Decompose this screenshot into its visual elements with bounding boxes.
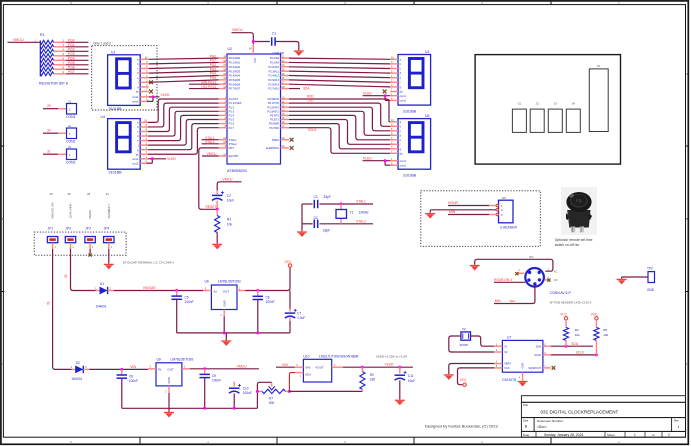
svg-text:XTAL1: XTAL1 <box>356 200 366 204</box>
net label RESET <box>206 205 217 209</box>
svg-text:VIN: VIN <box>305 366 310 370</box>
svg-text:33pF: 33pF <box>323 229 330 233</box>
svg-text:U10: U10 <box>303 354 309 358</box>
wire R7 to U10 ADJ <box>289 373 295 392</box>
svg-text:P1.0/T2: P1.0/T2 <box>229 97 239 101</box>
junction at MCU VCC <box>252 40 255 43</box>
junction XTAL1-crystal <box>340 203 343 206</box>
junction R7 right <box>288 390 291 393</box>
ground (TP2) <box>617 279 627 284</box>
svg-text:3101BB: 3101BB <box>403 110 417 114</box>
junction SDA-R4 <box>565 345 568 348</box>
wire HOUR to header pin1 <box>448 205 496 207</box>
junction R7 left <box>256 390 259 393</box>
svg-text:Date:: Date: <box>523 433 530 437</box>
resistor R4 10k <box>560 313 580 347</box>
svg-text:31: 31 <box>106 192 109 196</box>
svg-text:C11: C11 <box>408 374 414 378</box>
svg-text:Rev: Rev <box>674 418 679 422</box>
capacitor C1 <box>272 31 285 55</box>
svg-text:VLED: VLED <box>363 91 372 95</box>
svg-text:CON1: CON1 <box>66 161 76 165</box>
svg-text:PG3: PG3 <box>68 52 75 56</box>
svg-text:C7: C7 <box>297 311 301 315</box>
svg-text:U6: U6 <box>205 280 209 284</box>
wire XTAL2 row <box>302 223 373 225</box>
svg-text:com2: com2 <box>400 99 407 103</box>
svg-text:VIN: VIN <box>130 365 136 369</box>
junction at C9 <box>203 367 206 370</box>
svg-text:100nF: 100nF <box>266 300 275 304</box>
wire U6 out to VCC <box>245 267 290 290</box>
svg-text:A: A <box>686 72 688 76</box>
svg-text:32768: 32768 <box>459 343 468 347</box>
net label VLED at U6 <box>363 156 372 160</box>
label RESISTOR SIP 8 <box>39 81 68 85</box>
wire SCLK <box>551 354 596 356</box>
svg-text:Designed by Kostas Bourantas,: Designed by Kostas Bourantas, (C) 2023 <box>425 424 498 429</box>
svg-text:TXD: TXD <box>307 99 314 103</box>
svg-text:29: 29 <box>47 104 51 108</box>
svg-text:C6: C6 <box>266 296 270 300</box>
crystal Y2 32768 <box>459 327 470 347</box>
svg-text:P3.5/T1: P3.5/T1 <box>270 118 280 122</box>
wire R3 to ground <box>216 233 218 244</box>
net label VMCU (row B) <box>237 364 248 368</box>
label CONN AV 6-P <box>550 291 572 295</box>
svg-text:RESISTOR SIP 8: RESISTOR SIP 8 <box>39 81 68 85</box>
net label MIN <box>449 210 456 214</box>
designed-by note <box>425 424 498 429</box>
svg-text:U4: U4 <box>101 115 105 119</box>
svg-text:GND: GND <box>521 363 525 369</box>
capacitor C9 100nF <box>199 369 221 409</box>
svg-text:B: B <box>2 217 4 221</box>
stub JP3 no-connect <box>89 249 92 257</box>
7-segment display U3 (3101BB) <box>390 50 431 114</box>
DIN pin2 no-connect <box>515 269 524 275</box>
svg-text:DS1307N: DS1307N <box>502 378 517 382</box>
svg-text:R4: R4 <box>575 328 579 332</box>
ground (top, right of C1) <box>294 51 304 56</box>
7-segment display U1 (3101BB) <box>108 50 149 111</box>
svg-text:330: 330 <box>370 378 376 382</box>
svg-text:1.0uF: 1.0uF <box>297 316 305 320</box>
resistor R3 10k <box>215 209 233 232</box>
no-connect X on ALE/PROG <box>290 146 294 150</box>
svg-text:C4: C4 <box>314 216 318 220</box>
svg-text:TP2: TP2 <box>647 267 653 271</box>
junction VOUT-C11 <box>398 366 401 369</box>
no-connect X on SQW/OUT <box>552 366 556 370</box>
svg-text:VMCU: VMCU <box>13 38 24 42</box>
no-connect X on U1 pin f <box>149 80 153 84</box>
ground (row A) <box>221 341 231 346</box>
svg-text:OUT: OUT <box>167 368 174 372</box>
svg-text:IN: IN <box>214 289 217 293</box>
wire U7 VBAT to ground <box>449 364 495 375</box>
svg-text:SDA: SDA <box>536 344 542 348</box>
net label VIN at U10 <box>276 363 295 367</box>
svg-text:P1.7: P1.7 <box>229 126 235 130</box>
svg-text:C8: C8 <box>129 374 133 378</box>
svg-text:R5: R5 <box>603 328 607 332</box>
svg-text:CONN AV 6-P: CONN AV 6-P <box>550 291 572 295</box>
svg-text:J3: J3 <box>68 145 71 149</box>
capacitor C8 100nF <box>117 369 138 408</box>
junction rail at C10 <box>233 407 236 410</box>
net label XTAL2 at MCU <box>202 140 219 144</box>
wire DIN bottom to MIN <box>494 286 535 304</box>
svg-text:10uF: 10uF <box>227 198 234 202</box>
svg-text:NC: NC <box>554 270 558 274</box>
ground (left of DIN) <box>470 266 480 271</box>
svg-text:P0.6/AD6: P0.6/AD6 <box>229 82 241 86</box>
svg-text:P1.4: P1.4 <box>229 114 235 118</box>
svg-text:P2.6/A14: P2.6/A14 <box>268 82 279 86</box>
ground (in header box) <box>425 214 435 219</box>
svg-text:PSEN: PSEN <box>272 138 279 142</box>
svg-text:SF DICMP TERMINAL CC CT-CA94: SF DICMP TERMINAL CC CT-CA94-3 <box>123 261 174 265</box>
svg-text:U6: U6 <box>425 114 429 118</box>
svg-text:RESET: RESET <box>206 205 217 209</box>
net label TXD <box>307 99 314 103</box>
svg-text:NEG: NEG <box>510 299 516 303</box>
svg-text:3101BB: 3101BB <box>109 171 123 175</box>
svg-text:S4: S4 <box>572 102 576 106</box>
wire U6 com to VLED <box>363 159 391 165</box>
wire D2 to U9 regulator (VIN) <box>89 368 148 370</box>
net label SDA <box>571 342 578 346</box>
svg-text:P3.4/T0: P3.4/T0 <box>270 114 280 118</box>
svg-text:3101BB: 3101BB <box>109 107 123 111</box>
svg-text:PG6: PG6 <box>68 65 75 69</box>
svg-text:SDA: SDA <box>571 342 578 346</box>
svg-text:switch on-off hw: switch on-off hw <box>555 243 580 247</box>
bus wires U4 segments to MCU port1 (staircase) <box>148 99 219 154</box>
ground (below R3) <box>212 244 222 249</box>
wire JP4 to ground <box>108 249 110 264</box>
svg-text:VCC: VCC <box>253 57 257 63</box>
svg-text:31: 31 <box>47 150 51 154</box>
svg-text:1N4001: 1N4001 <box>96 304 107 308</box>
svg-text:VLED +1.25V to +1.5V: VLED +1.25V to +1.5V <box>376 355 408 359</box>
crystal Y1 12MHz <box>336 204 369 224</box>
svg-text:29: 29 <box>50 192 53 196</box>
svg-text:R2: R2 <box>370 373 374 377</box>
wire U3 com to VLED <box>363 94 391 100</box>
wire SDA <box>551 345 593 347</box>
regulator U9 LM78L05 <box>148 363 190 409</box>
svg-text:P1.3: P1.3 <box>229 109 235 113</box>
svg-text:ADJ: ADJ <box>305 373 311 377</box>
svg-text:S3: S3 <box>554 102 558 106</box>
net label VMCU at EA/VPP <box>202 152 219 156</box>
net label SCLK <box>576 351 585 355</box>
capacitor C2 10uF <box>212 190 234 209</box>
wire XTAL ground rail <box>301 204 303 231</box>
svg-text:D1: D1 <box>597 64 601 68</box>
junction SCLK-R5 <box>595 353 598 356</box>
ground rail row A <box>177 332 290 334</box>
ground (U7 GND) <box>518 382 528 387</box>
svg-text:500: 500 <box>269 401 275 405</box>
svg-text:P2.1/A9: P2.1/A9 <box>270 61 280 65</box>
svg-text:com1: com1 <box>132 95 139 99</box>
svg-text:PG0: PG0 <box>68 38 75 42</box>
dashed note box Only 1 and 2 <box>92 41 157 110</box>
wire crystal to U7 X2 <box>449 336 495 352</box>
svg-text:VLED: VLED <box>385 363 394 367</box>
svg-text:VLED: VLED <box>363 156 372 160</box>
svg-text:12MHz: 12MHz <box>359 211 370 215</box>
svg-text:D1: D1 <box>100 282 104 286</box>
svg-text:CON1: CON1 <box>66 140 76 144</box>
wire U1 com to VLED <box>147 95 160 101</box>
svg-text:C10: C10 <box>243 387 249 391</box>
microcontroller U2 AT89S8253 <box>219 44 290 164</box>
junction gnd rail at U6 <box>223 331 226 334</box>
svg-text:P0.1/AD1: P0.1/AD1 <box>229 61 241 65</box>
wire crystal to U7 X1 <box>471 336 495 346</box>
DIN pin4 no-connect <box>545 276 558 282</box>
jumper JP1 <box>47 237 57 250</box>
svg-text:ALE/PROG: ALE/PROG <box>266 146 279 150</box>
svg-text:<Doc>: <Doc> <box>537 425 547 429</box>
svg-text:C9: C9 <box>212 374 216 378</box>
svg-text:PG5: PG5 <box>68 61 75 65</box>
svg-text:PG1: PG1 <box>68 43 75 47</box>
svg-text:J1: J1 <box>68 99 71 103</box>
svg-text:10k: 10k <box>603 333 608 337</box>
ground rail row B <box>122 407 258 409</box>
wire MIN to header pin3 <box>448 214 496 216</box>
wire JP1 to D2 (net 31) <box>46 249 71 370</box>
svg-text:10k: 10k <box>227 222 233 226</box>
junction at C6 <box>256 289 259 292</box>
jumper block header labels <box>48 192 111 230</box>
dashed box around jumpers <box>34 232 126 255</box>
svg-text:VMCU: VMCU <box>232 28 243 32</box>
ground (below C11) <box>395 400 405 405</box>
svg-text:JP3: JP3 <box>85 227 91 231</box>
svg-text:AT89S8253: AT89S8253 <box>227 169 247 173</box>
net label HOUR <box>448 201 459 205</box>
wire U4 com to VLED <box>147 157 166 163</box>
svg-text:SQW/OUT: SQW/OUT <box>528 366 541 370</box>
svg-text:OUT: OUT <box>223 289 230 293</box>
svg-text:CON1: CON1 <box>66 115 76 119</box>
svg-text:30: 30 <box>47 129 51 133</box>
svg-text:EA/VPP: EA/VPP <box>229 154 239 158</box>
wire VMCU to R1 <box>8 38 41 42</box>
test point TP2 <box>622 267 655 293</box>
resistor network R1 (SIP 8) <box>35 33 88 76</box>
svg-text:Only 1 and 2: Only 1 and 2 <box>93 41 111 45</box>
label U6 LM78L05/TO92 <box>205 280 242 284</box>
power symbol VCC (U7) <box>460 378 467 386</box>
svg-text:31: 31 <box>46 301 50 305</box>
svg-text:PG7: PG7 <box>68 70 75 74</box>
svg-text:P1.6: P1.6 <box>229 122 235 126</box>
svg-text:Title: Title <box>523 403 528 407</box>
junction at C5 <box>175 289 178 292</box>
7-segment display U4 (3101BB) <box>101 115 149 174</box>
wire VMCU stub at C2 <box>217 182 241 190</box>
net label VIN (row B) <box>130 365 136 369</box>
ground (below JP4) <box>104 264 114 269</box>
svg-text:P0.2/AD2: P0.2/AD2 <box>229 65 241 69</box>
svg-text:SCLK: SCLK <box>576 351 585 355</box>
junction RESET node <box>216 208 219 211</box>
DIN pin1 number <box>548 268 558 273</box>
svg-text:P3.1/TXD: P3.1/TXD <box>268 101 279 105</box>
svg-text:VMCU: VMCU <box>207 152 218 156</box>
label DS1307N <box>502 378 517 382</box>
net label XTAL1 at MCU <box>202 136 219 140</box>
svg-text:X2: X2 <box>504 350 508 354</box>
svg-text:HOUR: HOUR <box>448 201 459 205</box>
svg-text:H12 PG13: H12 PG13 <box>201 85 216 89</box>
svg-text:VLED: VLED <box>161 93 170 97</box>
wire rail to R7-left <box>256 391 258 408</box>
svg-text:SCLK: SCLK <box>308 128 317 132</box>
regulator U10 LM317 <box>295 359 343 382</box>
svg-text:SUMMER T: SUMMER T <box>107 203 111 218</box>
svg-text:P0.5/AD5: P0.5/AD5 <box>229 78 241 82</box>
svg-text:100uF: 100uF <box>243 391 252 395</box>
junction VOUT-R2 <box>361 366 364 369</box>
net label VLED at U1 <box>161 93 170 97</box>
svg-text:100nF: 100nF <box>212 379 221 383</box>
resistor R5 10k <box>591 313 609 355</box>
wire U9 out (VMCU) <box>190 368 259 370</box>
connector J3 CON1 <box>43 145 77 165</box>
svg-text:JP4: JP4 <box>104 227 110 231</box>
label U9 LM78L05/TO92 <box>157 357 194 361</box>
svg-text:30: 30 <box>68 192 71 196</box>
net label SDA on port2 wire <box>303 86 310 90</box>
svg-text:P3.0/RXD: P3.0/RXD <box>268 97 279 101</box>
svg-text:1: 1 <box>634 433 636 437</box>
svg-text:Sheet: Sheet <box>607 433 615 437</box>
jumper JP3 <box>85 237 95 250</box>
svg-text:HOUR.ON 3: HOUR.ON 3 <box>494 278 512 282</box>
svg-text:P2.7/A15: P2.7/A15 <box>268 87 279 91</box>
svg-text:2: 2 <box>668 433 670 437</box>
svg-text:NO: NO <box>554 278 558 282</box>
bus wires MCU port3 to U6 segments (staircase) <box>289 99 390 153</box>
svg-text:VCC: VCC <box>560 313 567 317</box>
svg-text:U7: U7 <box>507 335 511 339</box>
svg-text:MIN: MIN <box>449 210 456 214</box>
diode D2 1N4001 <box>71 361 89 381</box>
svg-text:DEMO: DEMO <box>88 209 92 218</box>
svg-text:VCC: VCC <box>460 378 467 382</box>
svg-text:Y1: Y1 <box>350 211 354 215</box>
svg-text:SCLK: SCLK <box>534 353 541 357</box>
svg-text:VCC: VCC <box>591 313 598 317</box>
wire gnd stub row B <box>168 408 170 412</box>
svg-text:GND: GND <box>647 288 655 292</box>
photo: rocker switch <box>561 187 597 235</box>
jumper JP2 <box>65 237 75 250</box>
note optional switch <box>555 238 593 247</box>
ground (row B) <box>164 413 174 418</box>
svg-text:100nF: 100nF <box>185 300 194 304</box>
jumper JP4 <box>104 237 114 250</box>
svg-text:VCC: VCC <box>285 260 293 264</box>
net label VLED at U4 <box>167 157 176 161</box>
svg-text:LM78L05/TO92: LM78L05/TO92 <box>218 280 241 284</box>
no-connect X on U1 pin dp <box>149 90 153 94</box>
svg-text:MINUTE SW: MINUTE SW <box>51 202 55 218</box>
svg-text:XTAL2: XTAL2 <box>229 142 238 146</box>
svg-text:VCC: VCC <box>504 366 510 370</box>
net label VIN.BAT <box>143 286 156 290</box>
svg-text:P0.0/AD0: P0.0/AD0 <box>229 56 241 60</box>
svg-text:VOUT: VOUT <box>315 366 324 370</box>
RTC U7 DS1307 <box>494 335 551 380</box>
svg-text:VIN.BAT: VIN.BAT <box>143 286 156 290</box>
svg-text:JP2: JP2 <box>529 255 534 259</box>
net label SCLK <box>308 128 317 132</box>
svg-text:X2: X2 <box>462 327 466 331</box>
note DIN part number <box>550 300 592 304</box>
capacitor C5 100nF <box>171 291 193 333</box>
capacitor C7 1.0uF on VCC rail <box>285 309 306 320</box>
svg-text:P3.3/INT1: P3.3/INT1 <box>267 109 279 113</box>
wire C1 to ground <box>275 42 299 51</box>
svg-text:D2: D2 <box>76 361 80 365</box>
label U10 LM317L <box>303 354 358 358</box>
junction rail at C9 <box>203 407 206 410</box>
svg-text:B: B <box>686 217 688 221</box>
svg-text:JP2: JP2 <box>66 227 72 231</box>
svg-text:28: 28 <box>87 192 90 196</box>
svg-text:100nF: 100nF <box>129 379 138 383</box>
no-connect X on U3 pin dp <box>383 90 387 94</box>
svg-text:P2.3/A11: P2.3/A11 <box>269 69 280 73</box>
wire U10 VOUT (VLED) <box>343 366 413 368</box>
junction gnd rail at C6 <box>256 331 259 334</box>
svg-text:X1: X1 <box>504 344 508 348</box>
net label RXD <box>307 94 314 98</box>
svg-text:of: of <box>652 433 655 437</box>
label AT89S8253 <box>227 169 247 173</box>
net label XTAL2 <box>356 219 366 223</box>
svg-text:JP1: JP1 <box>48 227 54 231</box>
svg-text:Size: Size <box>523 418 529 422</box>
svg-text:com1: com1 <box>400 159 407 163</box>
svg-text:XTAL1: XTAL1 <box>229 138 238 142</box>
svg-text:com2: com2 <box>132 100 139 104</box>
bus wires MCU port2 to U3 segments <box>289 58 390 88</box>
svg-text:R3: R3 <box>227 218 231 222</box>
no-connect X on PSEN <box>290 138 294 142</box>
net label XTAL1 <box>356 200 366 204</box>
svg-text:R7: R7 <box>269 397 273 401</box>
svg-text:VLED: VLED <box>167 157 176 161</box>
wire JP2 to D1 (net 30) <box>64 249 96 291</box>
svg-text:P1.2: P1.2 <box>229 105 235 109</box>
svg-text:U2: U2 <box>228 47 232 51</box>
capacitor C11 10uF <box>395 367 416 399</box>
label JP2 on DIN wire <box>529 255 534 259</box>
svg-text:com1: com1 <box>400 94 407 98</box>
net label VMCU above C2 <box>223 177 234 181</box>
capacitor C6 100nF <box>253 291 275 333</box>
